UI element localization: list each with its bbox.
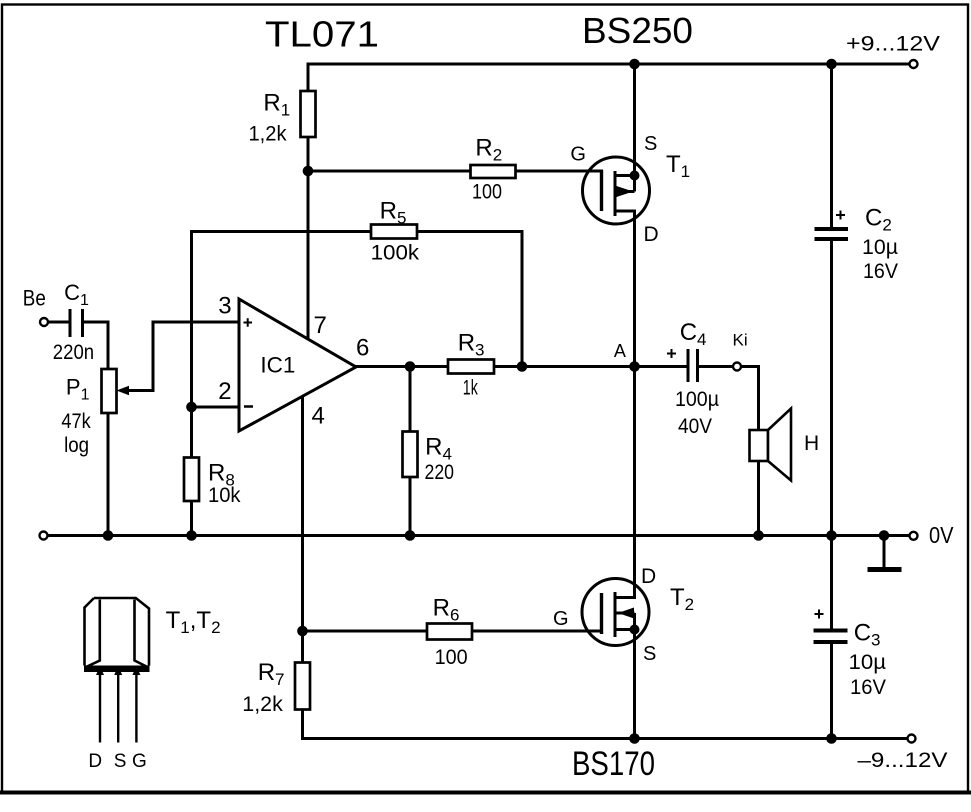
svg-text:+9...12V: +9...12V [846,32,941,56]
wire node to gate T2 (through R6) [303,630,602,633]
wire R1 bottom lead to node [307,137,310,171]
svg-text:6: 6 [356,335,369,362]
wire T2 source to -rail [633,630,636,739]
transistor T2 channel bar [614,592,617,637]
svg-text:1,2k: 1,2k [249,122,287,145]
svg-text:1,2k: 1,2k [242,693,283,716]
resistor R7 [295,663,310,710]
svg-text:log: log [64,434,89,457]
wire R4 top lead [409,367,412,432]
wire pin4 down to R6/R7 node [301,397,304,632]
wire down to speaker [757,367,760,431]
wire ground stem [883,536,886,568]
junction R6/R7 node [297,626,308,637]
junction top rail / C2 [826,59,837,70]
capacitor C3 plate top [814,629,848,633]
svg-text:–9...12V: –9...12V [858,749,948,772]
junction T1 source [630,171,640,181]
plus sign C4 [667,349,676,358]
TO-92 lead G arrowhead [132,666,140,675]
junction node R1/R2/pin7 [303,166,314,177]
TO-92 lead S arrowhead [114,666,122,675]
resistor R2 [471,165,516,178]
transistor T1 gate bar [600,170,603,211]
border bottom heavy line [0,791,971,795]
wire R8 top lead [190,407,193,458]
transistor T1 bulk arrow [617,186,634,197]
wire node A to T2 drain [633,367,636,598]
transistor T1 bulk connector [633,176,636,192]
wire R5 right leg down to output [521,232,524,367]
wire R5 left leg from pin2 node [190,232,193,408]
junction bottom rail / C3 [826,733,837,744]
svg-text:G: G [553,608,569,630]
svg-text:S: S [643,643,656,665]
junction 0V/P1 [103,530,114,541]
wire R7 bottom lead [301,710,304,739]
wire C2 top lead [830,64,833,227]
junction 0V/R8 [186,530,197,541]
wire Ki to corner [741,365,759,368]
svg-text:16V: 16V [850,676,886,699]
resistor R5 [371,225,417,239]
wire bottom rail -V [303,737,909,740]
svg-text:40V: 40V [678,415,712,438]
capacitor C2 plate bottom [815,237,849,241]
svg-text:G: G [132,751,147,772]
transistor T1 drain stub [615,210,635,213]
TO-92 lead D arrowhead [96,666,104,675]
resistor R6 [427,624,472,640]
wire wiper to pin3 [153,321,239,324]
wire R1 top lead [307,64,310,91]
transistor T2 circle [582,579,649,646]
TO-92 package outline [85,598,150,666]
loudspeaker H box [750,430,769,461]
wire R8 bottom lead [190,501,193,536]
svg-text:10µ: 10µ [862,236,898,259]
resistor R8 [184,458,199,502]
transistor T1 source stub [615,174,635,177]
TO-92 package inner left edge [86,600,100,668]
op-amp minus input sign [244,405,253,408]
transistor T2 source stub [615,628,635,631]
wire C4 to Ki [700,365,733,368]
junction 0V/R4 [405,530,416,541]
wire wiper riser [152,322,155,391]
capacitor C1 plate right [81,309,84,337]
svg-text:G: G [570,144,586,166]
svg-text:4: 4 [312,403,325,430]
wire pin7 supply lead [307,171,310,339]
TO-92 package inner right edge [135,600,148,668]
svg-text:A: A [614,341,626,361]
transistor T2 bulk stub [615,612,635,615]
terminal Ki [733,363,741,371]
transistor T2 drain stub [615,596,635,599]
wire 0V rail [48,534,910,537]
transistor T1 bulk stub [615,190,635,193]
wire R7 top lead [301,631,304,663]
ground bar [868,567,902,572]
svg-text:100k: 100k [371,241,420,264]
svg-text:BS170: BS170 [572,745,655,783]
TO-92 lead D [99,674,101,743]
wire C2 bottom lead [830,241,833,536]
svg-text:100: 100 [472,181,502,204]
wire op-amp output to C4 [356,365,686,368]
svg-text:S: S [644,133,657,155]
wire C3 top lead [830,536,833,629]
svg-text:10k: 10k [208,484,241,507]
svg-text:0V: 0V [929,522,954,548]
capacitor C4 plate left [687,349,690,382]
svg-text:3: 3 [218,293,231,320]
loudspeaker H cone [768,409,791,481]
terminal +9...12V [910,60,918,68]
svg-text:220: 220 [425,461,455,484]
junction output/R5 [517,361,528,372]
wire speaker to 0V [757,461,760,536]
wire corner down to P1 top [107,322,110,369]
svg-text:16V: 16V [863,260,898,283]
svg-text:D: D [644,223,659,246]
transistor T2 gate bar [600,593,603,634]
wire C1 to corner [84,321,108,324]
plus sign C3 [815,610,824,619]
svg-text:47k: 47k [61,410,91,433]
svg-text:D: D [88,751,102,772]
junction 0V/speaker [753,530,764,541]
junction 0V/ground [879,530,890,541]
op-amp plus input sign [244,318,253,327]
svg-text:S: S [114,751,127,772]
terminal -9...12V [908,735,916,743]
wire pin2 lead [192,406,240,409]
wire R5 top horizontal [192,230,523,233]
svg-text:Be: Be [23,286,46,311]
wire T1 drain to node A [633,211,636,367]
wire C3 bottom lead [830,644,833,739]
TO-92 package flange bar [84,666,150,673]
potentiometer P1 body [102,369,117,413]
junction top rail / T1 [629,59,640,70]
TO-92 lead S [117,674,119,743]
junction bottom rail / T2 [629,733,640,744]
junction pin2/R5/R8 [186,402,197,413]
wire T1 source to +rail [633,64,636,176]
TO-92 lead G [135,674,137,743]
junction output/R4 [405,361,416,372]
wire R4 bottom lead [409,477,412,536]
svg-text:Ki: Ki [733,331,748,350]
wire node R1 to gate T1 (through R2) [308,170,602,173]
svg-text:10µ: 10µ [849,651,887,674]
junction T2 source [630,625,640,635]
svg-text:1k: 1k [463,377,478,400]
plus sign C2 [836,211,845,220]
svg-text:D: D [641,565,656,588]
resistor R3 [448,360,494,374]
svg-text:2: 2 [218,378,231,405]
wire input Be to C1 [48,321,69,324]
svg-text:H: H [804,432,819,455]
svg-text:100µ: 100µ [675,388,719,411]
terminal 0V left [40,532,48,540]
potentiometer P1 wiper arrowhead [117,386,130,396]
wire P1 bottom to 0V [107,413,110,536]
capacitor C4 plate right [696,349,699,382]
terminal Be input [40,318,48,326]
transistor T2 bulk connector [633,613,636,630]
svg-text:100: 100 [435,646,468,669]
resistor R1 [301,91,316,137]
wire top rail +V [308,63,910,66]
svg-text:IC1: IC1 [260,353,295,378]
transistor T1 circle [583,157,650,224]
node A junction [629,361,640,372]
terminal 0V right [910,532,918,540]
wire wiper arrow tail [126,389,153,392]
junction 0V/C2-C3 [826,530,837,541]
capacitor C2 plate top [815,227,849,231]
svg-text:220n: 220n [53,341,94,364]
svg-text:TL071: TL071 [265,14,379,55]
transistor T2 bulk arrow [618,608,634,619]
capacitor C3 plate bottom [814,640,848,644]
resistor R4 [403,432,418,478]
svg-text:7: 7 [314,312,327,339]
op-amp IC1 triangle [239,299,356,431]
capacitor C1 plate left [69,309,72,337]
transistor T1 channel bar [614,171,617,216]
svg-text:BS250: BS250 [582,10,693,51]
